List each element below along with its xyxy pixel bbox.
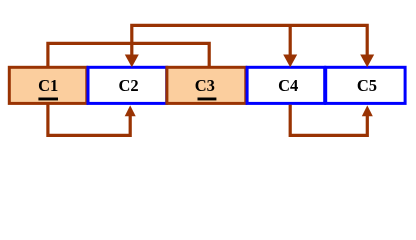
svg-text:C5: C5: [357, 76, 377, 95]
svg-text:C2: C2: [119, 76, 139, 95]
svg-text:C4: C4: [278, 76, 298, 95]
svg-text:C1: C1: [38, 76, 58, 95]
svg-text:C3: C3: [195, 76, 215, 95]
